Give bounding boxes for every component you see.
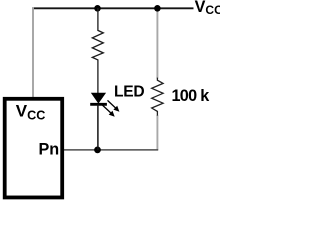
wire: vertical from 100k resistor bottom down to Pn net corner (156, 115, 158, 150)
LED D1: anode triangle (92, 93, 106, 103)
resistor (LED series resistor, unlabeled) with leads (92, 8, 103, 93)
wire: Vcc top rail (horizontal) (32, 7, 194, 9)
LED light-emission arrow (upper) (108, 100, 120, 111)
resistor 100k with leads (152, 78, 163, 116)
LED D1: cathode lead down to Pn net (97, 104, 99, 150)
LED light-emission arrow (lower) (102, 105, 115, 117)
svg-text:VCC: VCC (195, 0, 220, 17)
svg-text:100 k: 100 k (172, 87, 211, 105)
svg-text:LED: LED (114, 84, 144, 101)
junction node: LED cathode / Pn net (94, 147, 101, 154)
svg-text:Pn: Pn (39, 141, 60, 159)
IC box outline (5, 99, 63, 198)
wire: left vertical from Vcc rail down to IC box top (32, 7, 34, 97)
wire: vertical from Vcc rail down to 100k resistor top (156, 7, 158, 78)
junction node: Vcc rail / 100k branch (154, 5, 161, 12)
junction node: Vcc rail / LED-resistor branch (94, 5, 101, 12)
LED D1: cathode bar (90, 103, 107, 106)
wire: Pn horizontal net from IC box pin to 100k branch (63, 149, 158, 151)
